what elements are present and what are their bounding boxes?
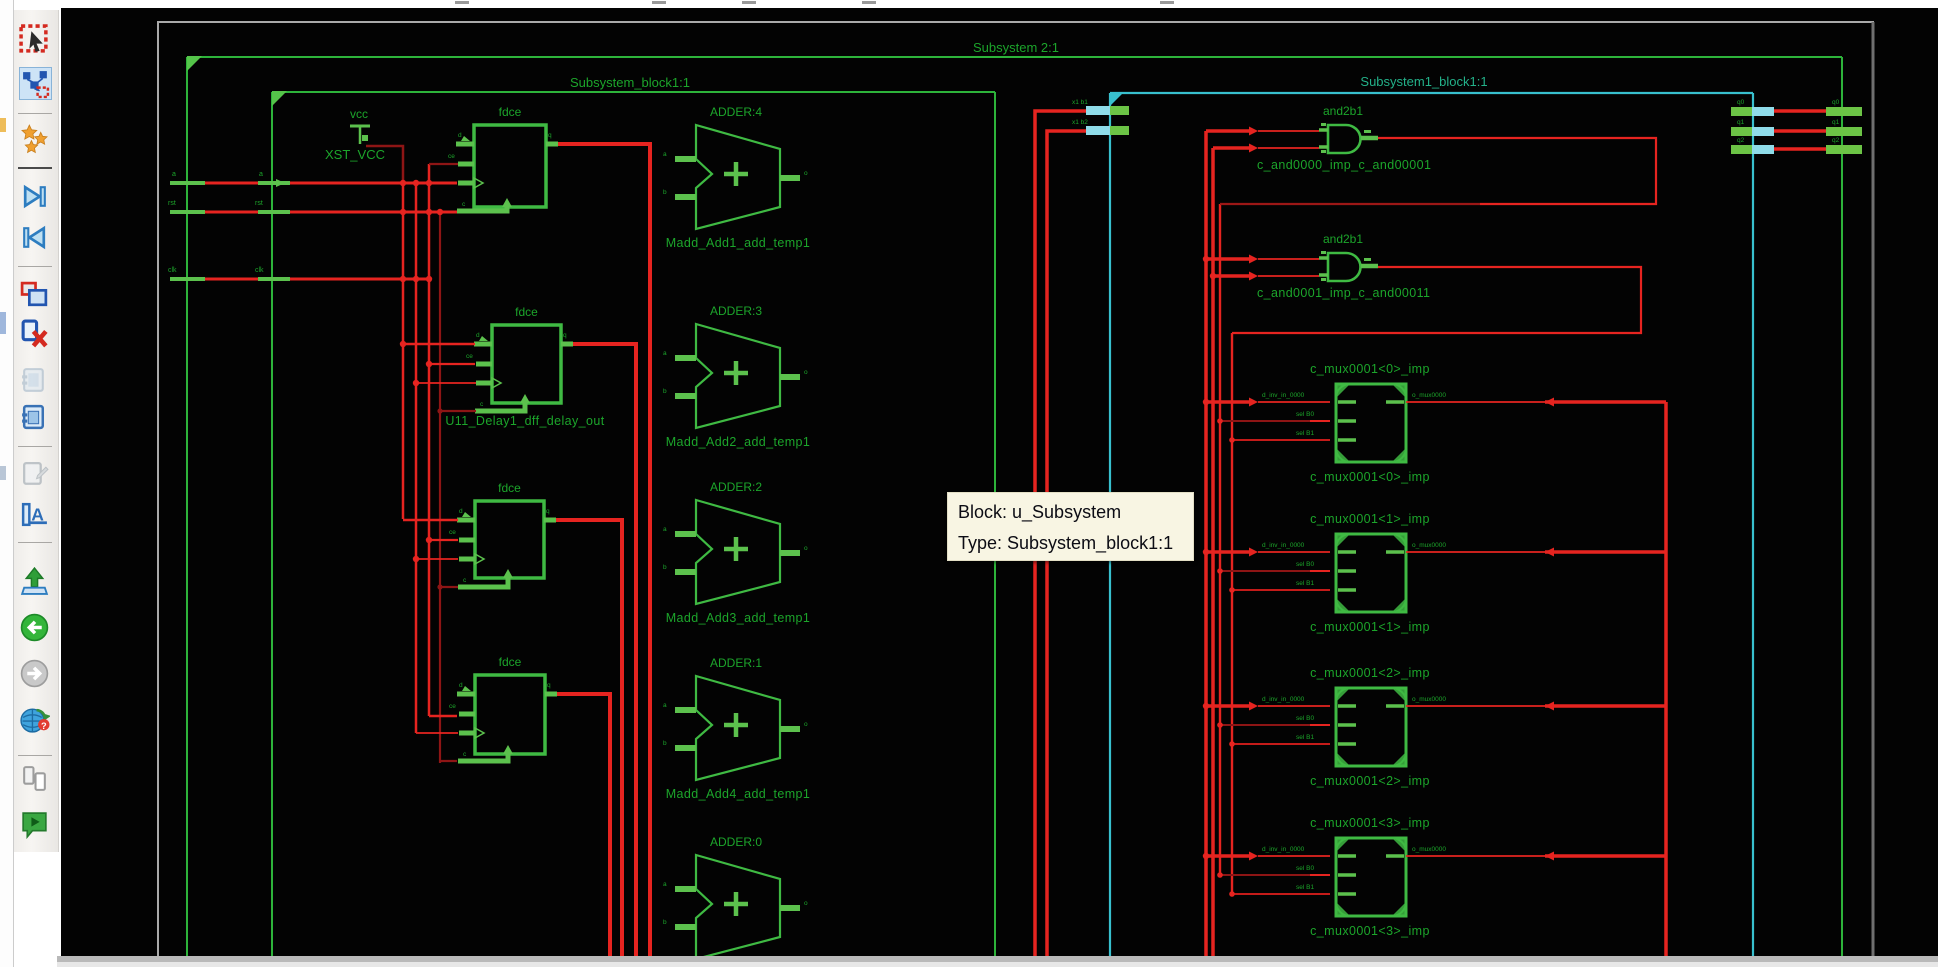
- output port q0: [1731, 99, 1862, 116]
- toolbar icon new stars: [19, 123, 50, 154]
- wire vertical net v403: [402, 183, 405, 519]
- wire gate1 input 2: [1213, 146, 1254, 150]
- flip-flop U11_Delay1: [445, 305, 604, 428]
- svg-text:rst: rst: [255, 200, 263, 207]
- wire mux2 sel0 input (dark): [1220, 724, 1320, 726]
- toolbar icon push block: [19, 280, 50, 311]
- wire block1 q: [558, 144, 650, 956]
- wire mux3 output: [1406, 855, 1545, 857]
- wire mux1 sel0 input (dark): [1220, 570, 1320, 572]
- svg-text:d: d: [458, 132, 462, 139]
- svg-text:ce: ce: [466, 353, 473, 360]
- svg-text:c_mux0001<0>_imp: c_mux0001<0>_imp: [1310, 362, 1430, 376]
- and-gate G2: [1257, 232, 1430, 300]
- svg-text:d: d: [476, 332, 480, 339]
- wire vertical net v429: [428, 164, 431, 716]
- toolbar icon route (selected): [19, 67, 52, 100]
- svg-text:b: b: [663, 388, 667, 395]
- junction dots left cluster: [400, 180, 406, 186]
- adder ADDER:2: [663, 480, 810, 625]
- mux c_mux0001_0: [1262, 362, 1446, 484]
- svg-text:sel B0: sel B0: [1296, 865, 1314, 872]
- svg-text:b: b: [663, 919, 667, 926]
- sheet border left: [157, 22, 159, 956]
- svg-text:sel B0: sel B0: [1296, 715, 1314, 722]
- adder ADDER:1: [663, 656, 810, 801]
- svg-text:c_mux0001<3>_imp: c_mux0001<3>_imp: [1310, 816, 1430, 830]
- svg-text:sel B0: sel B0: [1296, 561, 1314, 568]
- svg-text:d: d: [459, 682, 463, 689]
- wire mux2 data input: [1206, 704, 1254, 708]
- wire mux2 output: [1406, 705, 1545, 707]
- svg-text:o: o: [804, 545, 808, 552]
- svg-text:o_mux0000: o_mux0000: [1412, 542, 1446, 549]
- wire gate1 output feedback loop: [1378, 138, 1656, 204]
- wire mux0 sel1 input: [1232, 439, 1330, 441]
- input wire clk: [170, 277, 290, 281]
- wire mux3 sel0 input (dark): [1220, 874, 1320, 876]
- wire block2 q: [573, 344, 636, 956]
- svg-text:ce: ce: [449, 703, 456, 710]
- wire mux output feedback vertical v1666: [1664, 402, 1668, 956]
- svg-text:o: o: [804, 721, 808, 728]
- flip-flop U1: [448, 105, 558, 211]
- svg-text:a: a: [663, 526, 667, 533]
- svg-text:o_mux0000: o_mux0000: [1412, 846, 1446, 853]
- wire gate2 input 1: [1206, 257, 1254, 261]
- wire taps block4: [429, 715, 457, 718]
- wire gate1 input 1: [1206, 129, 1254, 133]
- svg-text:q: q: [547, 682, 551, 689]
- toolbar icon windows: [19, 763, 50, 794]
- and-gate G1: [1257, 104, 1431, 172]
- svg-text:o: o: [804, 900, 808, 907]
- toolbar icon back (green): [19, 612, 50, 643]
- svg-text:c_and0000_imp_c_and00001: c_and0000_imp_c_and00001: [1257, 158, 1431, 172]
- svg-text:rst: rst: [168, 200, 176, 207]
- svg-text:b: b: [663, 564, 667, 571]
- toolbar icon forward disabled: [19, 658, 50, 689]
- svg-text:o_mux0000: o_mux0000: [1412, 696, 1446, 703]
- svg-text:Subsystem 2:1: Subsystem 2:1: [973, 40, 1059, 55]
- svg-text:Subsystem_block1:1: Subsystem_block1:1: [570, 75, 690, 90]
- mux c_mux0001_3: [1262, 816, 1446, 938]
- svg-text:and2b1: and2b1: [1323, 232, 1363, 246]
- svg-text:q: q: [548, 132, 552, 139]
- svg-text:c_mux0001<2>_imp: c_mux0001<2>_imp: [1310, 666, 1430, 680]
- svg-text:x1 b1: x1 b1: [1072, 99, 1088, 106]
- svg-text:a: a: [663, 881, 667, 888]
- svg-text:fdce: fdce: [515, 305, 538, 319]
- flip-flop U2: [449, 481, 556, 587]
- toolbar icon step back: [19, 222, 50, 253]
- svg-text:a: a: [663, 350, 667, 357]
- svg-text:vcc: vcc: [350, 107, 368, 121]
- svg-text:ADDER:3: ADDER:3: [710, 304, 762, 318]
- svg-text:d_inv_in_0000: d_inv_in_0000: [1262, 392, 1305, 399]
- input wire rst: [170, 210, 290, 214]
- wire bus vertical v1213: [1211, 148, 1215, 956]
- svg-text:ADDER:4: ADDER:4: [710, 105, 762, 119]
- wire block4 q: [557, 694, 610, 956]
- svg-text:sel B1: sel B1: [1296, 734, 1314, 741]
- wire mux3 sel1 input: [1232, 893, 1330, 895]
- input wire a: [170, 181, 290, 185]
- toolbar icon web help: [19, 704, 50, 735]
- svg-text:sel B1: sel B1: [1296, 430, 1314, 437]
- svg-text:d_inv_in_0000: d_inv_in_0000: [1262, 846, 1305, 853]
- svg-text:b: b: [663, 189, 667, 196]
- sheet border right: [1872, 22, 1875, 956]
- svg-text:d_inv_in_0000: d_inv_in_0000: [1262, 542, 1305, 549]
- mux c_mux0001_2: [1262, 666, 1446, 788]
- flip-flop U3: [449, 655, 557, 761]
- wire mux1 output: [1406, 551, 1545, 553]
- sheet border top: [157, 21, 1874, 23]
- svg-text:c_mux0001<1>_imp: c_mux0001<1>_imp: [1310, 512, 1430, 526]
- svg-text:fdce: fdce: [499, 105, 522, 119]
- svg-text:sel B0: sel B0: [1296, 411, 1314, 418]
- svg-text:o: o: [804, 170, 808, 177]
- svg-text:U11_Delay1_dff_delay_out: U11_Delay1_dff_delay_out: [445, 414, 604, 428]
- subsystem box Subsystem1_block1:1 (cyan): [1110, 92, 1753, 94]
- subsystem box Subsystem_block1:1: [272, 91, 995, 93]
- toolbar icon notebook: [19, 402, 50, 433]
- wire feedback vertical v1220: [1219, 204, 1221, 875]
- wire mux3 data input: [1206, 854, 1254, 858]
- mux c_mux0001_1: [1262, 512, 1446, 634]
- wire taps block2: [403, 343, 475, 346]
- svg-text:sel B1: sel B1: [1296, 580, 1314, 587]
- svg-text:ADDER:0: ADDER:0: [710, 835, 762, 849]
- tooltip Block: u_Subsystem: [947, 492, 1194, 561]
- svg-text:clk: clk: [255, 267, 264, 274]
- svg-text:?: ?: [41, 721, 47, 731]
- wire vertical net v416: [415, 183, 418, 733]
- svg-text:c_mux0001<1>_imp: c_mux0001<1>_imp: [1310, 620, 1430, 634]
- wire vcc to fdce blocks (dark): [366, 146, 403, 183]
- toolbar icon step forward: [19, 181, 50, 212]
- svg-text:ADDER:2: ADDER:2: [710, 480, 762, 494]
- svg-text:c_and0001_imp_c_and00011: c_and0001_imp_c_and00011: [1257, 286, 1430, 300]
- toolbar icon run comment: [19, 809, 50, 840]
- svg-text:o_mux0000: o_mux0000: [1412, 392, 1446, 399]
- svg-text:ce: ce: [448, 153, 455, 160]
- svg-text:clk: clk: [168, 267, 177, 274]
- svg-text:o: o: [804, 369, 808, 376]
- wire mux1 data input: [1206, 550, 1254, 554]
- svg-text:c_mux0001<3>_imp: c_mux0001<3>_imp: [1310, 924, 1430, 938]
- svg-text:ADDER:1: ADDER:1: [710, 656, 762, 670]
- svg-text:d_inv_in_0000: d_inv_in_0000: [1262, 696, 1305, 703]
- output port q2: [1731, 137, 1862, 154]
- svg-text:d: d: [459, 508, 463, 515]
- svg-text:sel B1: sel B1: [1296, 884, 1314, 891]
- adder ADDER:4: [663, 105, 810, 250]
- wire mux0 output: [1406, 401, 1545, 403]
- wire bus vertical v1206: [1204, 131, 1208, 956]
- svg-text:fdce: fdce: [499, 655, 522, 669]
- wire mux2 sel1 input: [1232, 743, 1330, 745]
- toolbar icon select: [19, 24, 50, 55]
- input port x1(1) on Subsystem1: [1047, 119, 1129, 956]
- toolbar icon edit disabled: [19, 459, 50, 490]
- wire vertical net v440 (clock, dark): [439, 212, 441, 763]
- bottom scrollbar strip: [57, 956, 1938, 962]
- input port x1(0) on Subsystem1: [1035, 99, 1129, 956]
- toolbar: [14, 10, 59, 852]
- top edge marks: [455, 1, 469, 4]
- toolbar icon pop block: [19, 318, 50, 349]
- svg-text:q0: q0: [1737, 99, 1745, 106]
- adder ADDER:0: [663, 835, 808, 959]
- svg-text:Madd_Add4_add_temp1: Madd_Add4_add_temp1: [666, 787, 811, 801]
- svg-text:q2: q2: [1737, 137, 1745, 144]
- svg-text:x1 b2: x1 b2: [1072, 119, 1088, 126]
- svg-text:q1: q1: [1737, 119, 1745, 126]
- wire mux1 sel1 input: [1232, 589, 1330, 591]
- wire taps block3: [403, 519, 458, 522]
- svg-text:Madd_Add2_add_temp1: Madd_Add2_add_temp1: [666, 435, 811, 449]
- wire gate2 output feedback loop: [1232, 267, 1641, 333]
- wire gate2 input 2: [1213, 274, 1254, 278]
- left rail: [0, 0, 14, 967]
- svg-text:q: q: [563, 332, 567, 339]
- svg-text:a: a: [259, 171, 263, 178]
- svg-text:c_mux0001<0>_imp: c_mux0001<0>_imp: [1310, 470, 1430, 484]
- svg-text:XST_VCC: XST_VCC: [325, 147, 385, 162]
- svg-text:a: a: [663, 151, 667, 158]
- svg-text:a: a: [172, 171, 176, 178]
- svg-text:q2: q2: [1832, 137, 1840, 144]
- svg-text:ce: ce: [449, 529, 456, 536]
- toolbar icon notes disabled: [19, 365, 50, 396]
- adder ADDER:3: [663, 304, 810, 449]
- svg-text:b: b: [663, 740, 667, 747]
- wire feedback vertical v1232: [1231, 333, 1233, 895]
- power symbol XST_VCC: [325, 107, 385, 162]
- svg-text:Madd_Add1_add_temp1: Madd_Add1_add_temp1: [666, 236, 811, 250]
- svg-text:and2b1: and2b1: [1323, 104, 1363, 118]
- left rail fragments: [0, 118, 6, 132]
- output port q1: [1731, 119, 1862, 136]
- svg-text:q: q: [546, 508, 550, 515]
- svg-text:Madd_Add3_add_temp1: Madd_Add3_add_temp1: [666, 611, 811, 625]
- wire block3 q: [556, 520, 622, 956]
- toolbar icon export up: [19, 566, 50, 597]
- svg-text:q1: q1: [1832, 119, 1840, 126]
- svg-text:q0: q0: [1832, 99, 1840, 106]
- svg-text:a: a: [663, 702, 667, 709]
- wire mux0 sel0 input (dark): [1220, 420, 1320, 422]
- svg-text:Subsystem1_block1:1: Subsystem1_block1:1: [1360, 74, 1487, 89]
- svg-text:c_mux0001<2>_imp: c_mux0001<2>_imp: [1310, 774, 1430, 788]
- wire tap block1 ce (dark): [429, 163, 458, 165]
- toolbar icon text A: [19, 499, 50, 530]
- subsystem box Subsystem 2:1: [187, 57, 1842, 956]
- wire mux0 data input: [1206, 400, 1254, 404]
- svg-text:fdce: fdce: [498, 481, 521, 495]
